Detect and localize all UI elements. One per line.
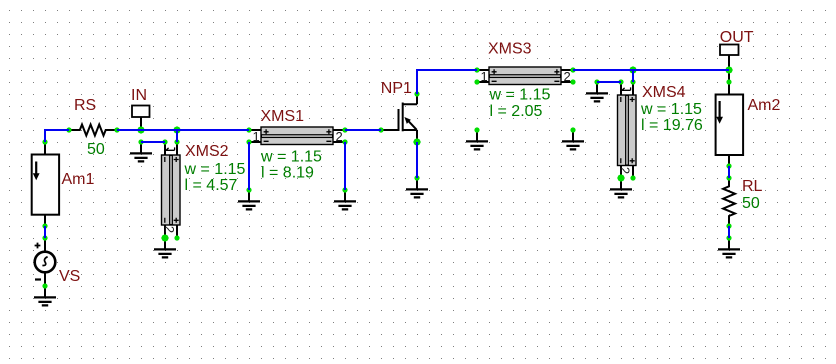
node junction [413,138,421,146]
wire [177,129,249,131]
svg-text:RL: RL [742,178,763,195]
pin dot [246,187,251,192]
source VS [35,238,81,286]
wire [728,226,730,238]
wire [141,141,165,143]
ground [238,190,260,209]
wire [141,129,177,131]
wire [633,69,729,71]
ground [406,178,428,197]
svg-text:XMS4: XMS4 [642,84,686,101]
svg-text:2: 2 [336,129,343,144]
svg-text:VS: VS [59,268,80,285]
wire [117,129,141,131]
node junction [629,66,637,74]
svg-text:l = 8.19: l = 8.19 [261,165,314,182]
ground [34,286,56,305]
svg-text:XMS2: XMS2 [185,143,229,160]
pin dot [630,175,635,180]
node junction [137,126,145,134]
pin dot [174,235,179,240]
ground [586,82,608,101]
ground [562,130,584,149]
pin dot [474,79,479,84]
ground [718,238,740,257]
transistor NP1 [381,80,417,142]
resistor RS [69,97,117,158]
ammeter Am2 [716,82,781,166]
pin dot [630,79,635,84]
svg-text:XMS3: XMS3 [488,41,532,58]
pin dot [726,175,731,180]
svg-text:Am1: Am1 [62,171,95,188]
pin dot [162,139,167,144]
pin dot [66,127,71,132]
pin dot [42,235,47,240]
wire [344,142,346,190]
svg-text:2: 2 [162,226,177,233]
pin dot [42,139,47,144]
svg-text:50: 50 [87,141,105,158]
pin dot [342,127,347,132]
wire [728,166,730,178]
svg-text:w = 1.15: w = 1.15 [184,161,246,178]
svg-text:XMS1: XMS1 [261,108,305,125]
pin dot [174,139,179,144]
svg-text:w = 1.15: w = 1.15 [489,87,551,104]
pin dot [474,127,479,132]
pin dot [42,283,47,288]
wire [597,81,621,83]
pin dot [42,223,47,228]
wire [632,70,634,82]
svg-text:1: 1 [253,129,260,144]
pin dot [378,127,383,132]
pin dot [414,91,419,96]
svg-text:Am2: Am2 [748,97,781,114]
pin dot [246,127,251,132]
svg-text:l = 19.76: l = 19.76 [641,117,703,134]
pin dot [414,175,419,180]
node junction [161,234,169,242]
wire [248,142,250,190]
ground [334,190,356,209]
ground [466,130,488,149]
wire [573,69,633,71]
wire [176,130,178,142]
ground [610,178,632,197]
svg-text:l = 4.57: l = 4.57 [185,177,238,194]
pin dot [570,79,575,84]
node junction [725,66,733,74]
node junction [173,126,181,134]
ground [130,142,152,161]
pin dot [726,163,731,168]
wire [417,70,477,94]
svg-text:l = 2.05: l = 2.05 [490,103,543,120]
pin dot [138,139,143,144]
pin dot [246,139,251,144]
transmission line XMS1 [249,108,345,182]
transmission line XMS2 [162,142,246,238]
ammeter Am1 [32,142,95,226]
pin dot [570,67,575,72]
wire [45,130,69,142]
wire [345,129,381,131]
resistor RL [723,178,762,226]
transmission line XMS3 [477,41,573,121]
pin dot [594,79,599,84]
svg-text:1: 1 [481,69,488,84]
svg-text:IN: IN [131,87,147,104]
svg-text:w = 1.15: w = 1.15 [640,101,702,118]
svg-text:RS: RS [74,97,96,114]
node IN [131,87,150,130]
svg-text:w = 1.15: w = 1.15 [260,149,322,166]
pin dot [726,79,731,84]
pin dot [570,127,575,132]
wire [416,142,418,178]
node OUT [720,29,754,82]
transmission line XMS4 [617,82,703,178]
node junction [617,174,625,182]
svg-text:NP1: NP1 [381,80,412,97]
ground [154,238,176,257]
wire [44,226,46,238]
pin dot [726,235,731,240]
pin dot [342,139,347,144]
pin dot [474,67,479,72]
pin dot [342,187,347,192]
pin dot [114,127,119,132]
svg-text:2: 2 [617,167,632,174]
svg-text:50: 50 [742,195,760,212]
pin dot [618,79,623,84]
svg-text:OUT: OUT [720,29,754,46]
svg-text:2: 2 [564,69,571,84]
pin dot [726,223,731,228]
